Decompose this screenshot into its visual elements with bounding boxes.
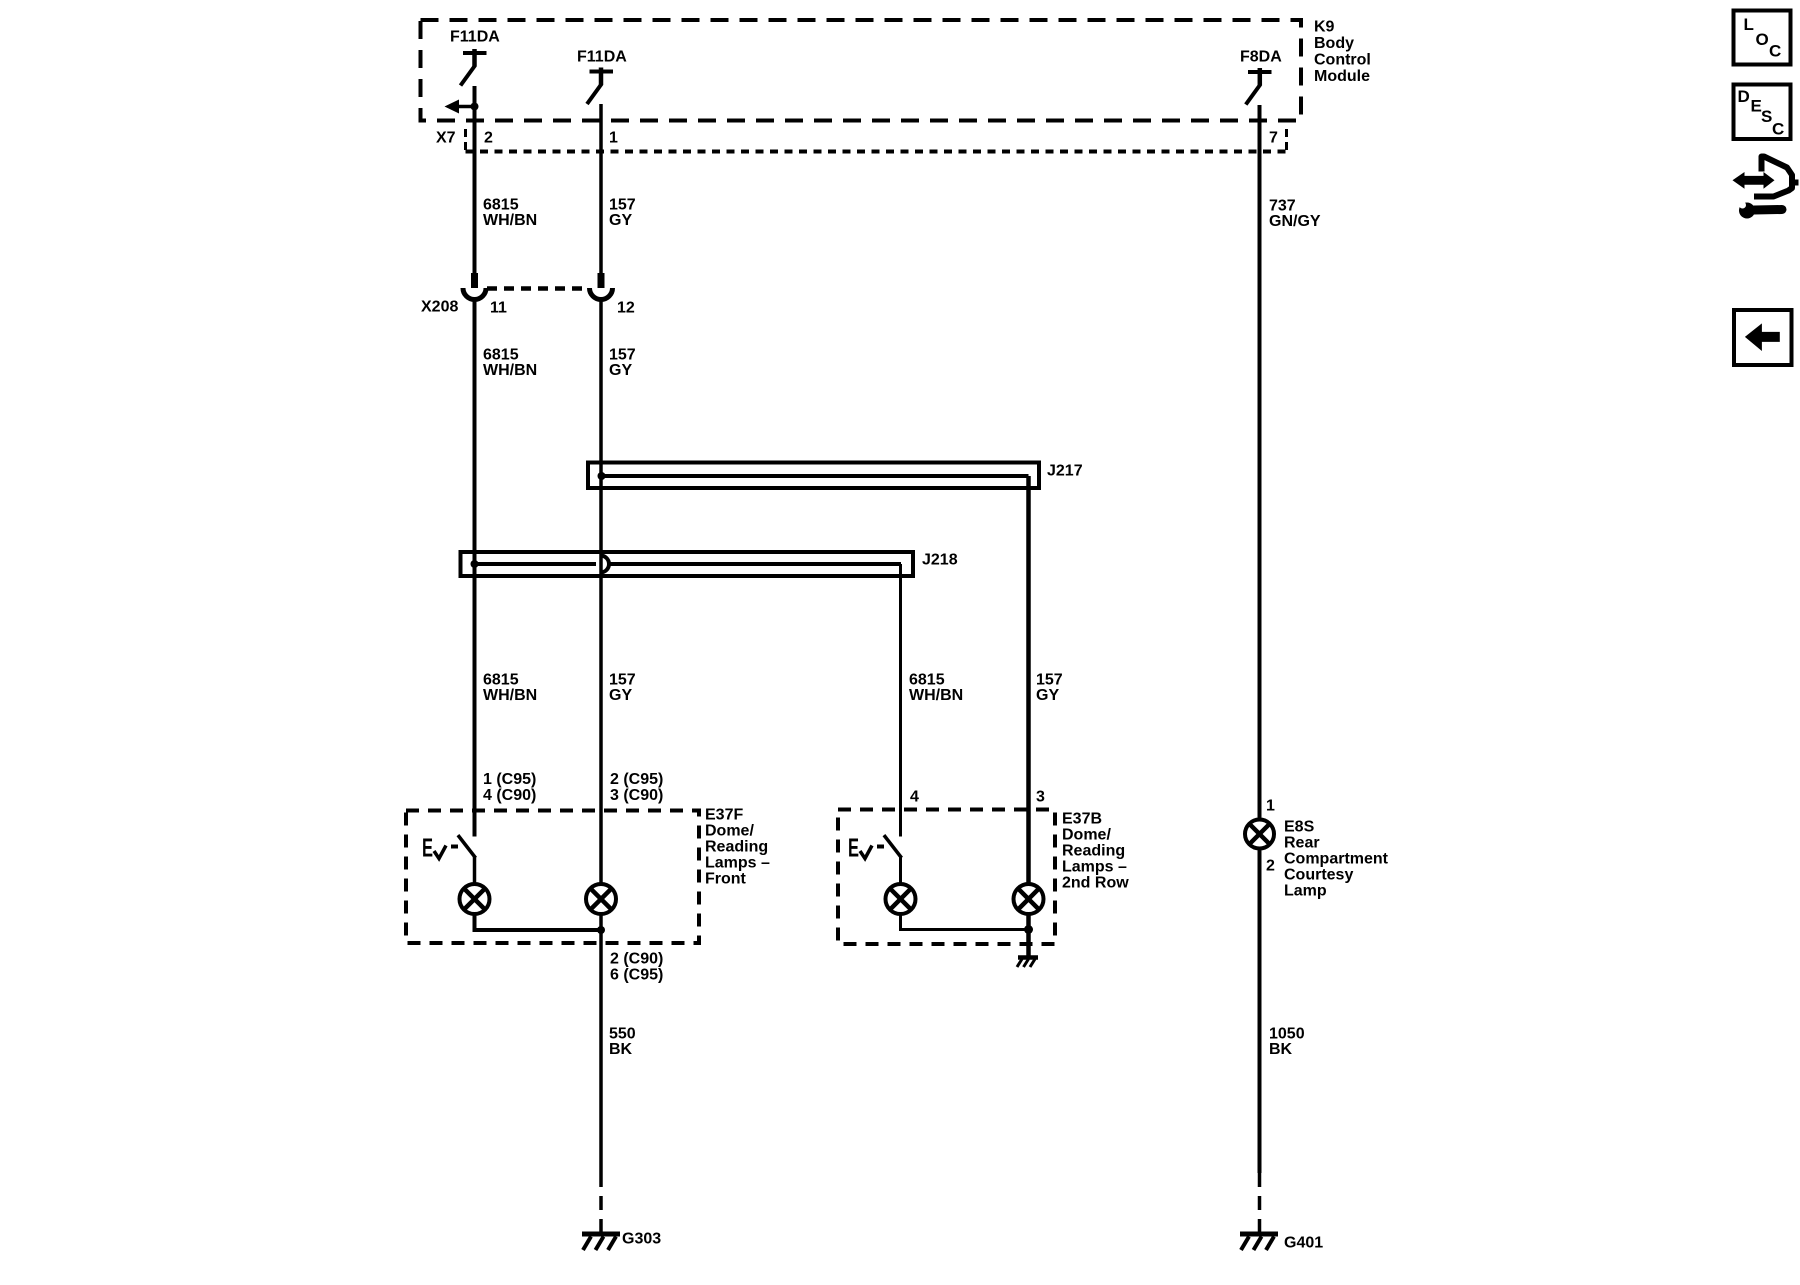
svg-text:GY: GY [609, 362, 632, 379]
svg-text:C: C [1772, 120, 1784, 139]
icon LOC button [1734, 11, 1791, 65]
ground G303 [582, 1234, 620, 1250]
E37F switch actuator label Ev [422, 833, 458, 863]
svg-text:6815: 6815 [483, 197, 519, 214]
icon back button (left arrow) [1734, 310, 1792, 365]
label E37B Dome/Reading Lamps - 2nd Row [1062, 811, 1129, 892]
wire lamp to ground (E37B) [1026, 914, 1031, 956]
svg-text:4: 4 [910, 789, 919, 806]
connector X7 dotted line [466, 129, 1287, 152]
icon DESC button [1734, 85, 1791, 140]
svg-text:2: 2 [1266, 858, 1275, 875]
wire 550 BK upper (lamp to below box) [599, 914, 603, 1173]
wire from J218 to E37B switch pin 4 [899, 564, 902, 837]
E37B lamp 1 [886, 884, 916, 914]
label E37F Dome/Reading Lamps - Front [705, 807, 770, 888]
svg-text:Module: Module [1314, 68, 1370, 85]
svg-text:F8DA: F8DA [1240, 49, 1282, 66]
svg-text:6815: 6815 [483, 347, 519, 364]
svg-text:Front: Front [705, 871, 747, 888]
svg-text:3: 3 [1036, 789, 1045, 806]
svg-text:Lamps –: Lamps – [705, 855, 770, 872]
splice pack J218 [461, 552, 914, 576]
wire 157 GY upper segment (fuse to X208) [599, 104, 603, 288]
fuse F11DA (second, circuit 157) [577, 49, 627, 105]
svg-text:157: 157 [609, 672, 636, 689]
svg-text:E8S: E8S [1284, 819, 1315, 836]
wire 1050 BK dashed lead to ground [1258, 1173, 1262, 1232]
svg-text:GY: GY [609, 687, 632, 704]
label K9 Body Control Module [1314, 19, 1371, 86]
connector X208 dashed link [487, 286, 589, 291]
E37F bottom link wire [475, 914, 602, 930]
svg-text:D: D [1738, 87, 1750, 106]
E37B switch actuator label Ev [848, 833, 884, 863]
svg-text:157: 157 [609, 197, 636, 214]
svg-text:GN/GY: GN/GY [1269, 213, 1321, 230]
svg-text:157: 157 [1036, 672, 1063, 689]
svg-text:Rear: Rear [1284, 835, 1320, 852]
svg-text:550: 550 [609, 1026, 636, 1043]
svg-text:F11DA: F11DA [450, 29, 500, 46]
svg-text:J217: J217 [1047, 463, 1083, 480]
svg-text:157: 157 [609, 347, 636, 364]
wire label 6815 WH/BN (above E37F) [483, 672, 537, 705]
pin label 1 (C95) / 4 (C90) [483, 771, 536, 804]
svg-text:J218: J218 [922, 552, 958, 569]
svg-text:737: 737 [1269, 198, 1296, 215]
ground G401 [1240, 1234, 1278, 1250]
wire switch to lamp (E37B) [899, 857, 902, 886]
svg-text:2nd Row: 2nd Row [1062, 875, 1129, 892]
icon related-diagram (double arrow with wrench) [1733, 157, 1799, 219]
E37F Dome/Reading Lamps - Front dashed box [406, 811, 699, 944]
svg-text:Body: Body [1314, 35, 1354, 52]
wire label 550 BK [609, 1026, 636, 1059]
splice pack J217 [588, 463, 1039, 489]
K9 Body Control Module dashed box [421, 20, 1302, 121]
svg-text:WH/BN: WH/BN [483, 362, 537, 379]
E37B switch blade [885, 837, 901, 857]
svg-text:Courtesy: Courtesy [1284, 867, 1353, 884]
wire label 1050 BK [1269, 1026, 1305, 1059]
svg-text:L: L [1744, 15, 1754, 34]
svg-text:1: 1 [609, 130, 618, 147]
wire label 6815 WH/BN (upper) [483, 197, 537, 230]
E37F lamp 1 [460, 884, 490, 914]
wire label 157 GY (above E37F) [609, 672, 636, 705]
svg-text:4 (C90): 4 (C90) [483, 787, 536, 804]
svg-text:2 (C90): 2 (C90) [610, 951, 663, 968]
svg-text:GY: GY [609, 212, 632, 229]
pin label 2 (C90) / 6 (C95) [610, 951, 663, 984]
svg-text:6815: 6815 [483, 672, 519, 689]
svg-text:O: O [1756, 30, 1769, 49]
E8S Rear Compartment Courtesy Lamp [1245, 820, 1274, 849]
svg-text:7: 7 [1269, 130, 1278, 147]
svg-text:1050: 1050 [1269, 1026, 1305, 1043]
wire from J217 to E37B lamp pin 3 [1026, 476, 1031, 885]
wire 550 BK dashed lead to ground [599, 1173, 603, 1232]
svg-text:BK: BK [609, 1041, 633, 1058]
E37B lamp 2 [1014, 884, 1044, 914]
wire label 157 GY (below X208) [609, 347, 636, 380]
svg-text:Reading: Reading [705, 839, 768, 856]
svg-text:Reading: Reading [1062, 843, 1125, 860]
svg-text:X208: X208 [421, 299, 458, 316]
arrow to other circuit (off-page, on wire 6815) [445, 100, 479, 114]
wire 1050 BK (lamp to ground) [1258, 848, 1262, 1173]
svg-text:WH/BN: WH/BN [483, 212, 537, 229]
svg-text:Dome/: Dome/ [1062, 827, 1111, 844]
svg-text:GY: GY [1036, 687, 1059, 704]
junction dot (E37B) [1024, 925, 1033, 934]
E37B bottom link wire [901, 914, 1029, 930]
wire label 157 GY (above E37B) [1036, 672, 1063, 705]
svg-text:G303: G303 [622, 1231, 661, 1248]
svg-text:12: 12 [617, 300, 635, 317]
wire label 737 GN/GY [1269, 198, 1321, 231]
wire label 6815 WH/BN (above E37B) [909, 672, 963, 705]
wire 6815 WH/BN upper segment (fuse to X208) [473, 86, 477, 288]
E37F lamp 2 [586, 884, 616, 914]
svg-text:F11DA: F11DA [577, 49, 627, 66]
wire 737 GN/GY (fuse F8DA to E8S lamp) [1258, 105, 1262, 820]
connector X208 terminal on wire 157 [590, 273, 613, 300]
svg-text:E37F: E37F [705, 807, 743, 824]
svg-text:Compartment: Compartment [1284, 851, 1389, 868]
svg-text:E: E [422, 833, 433, 863]
junction dot (E37F) [597, 926, 605, 934]
svg-text:2: 2 [484, 130, 493, 147]
svg-text:11: 11 [490, 300, 507, 317]
wire label 157 GY (upper) [609, 197, 636, 230]
svg-text:E: E [848, 833, 859, 863]
label E8S Rear Compartment Courtesy Lamp [1284, 819, 1389, 900]
wire 157 GY (X208 through J217/J218 to E37F lamp) [599, 299, 603, 886]
connector X208 terminal on wire 6815 [463, 273, 486, 300]
wire 6815 WH/BN segment (X208 to E37F switch) [473, 299, 477, 837]
svg-text:Lamps –: Lamps – [1062, 859, 1127, 876]
svg-text:WH/BN: WH/BN [909, 687, 963, 704]
E37B Dome/Reading Lamps - 2nd Row dashed box [838, 810, 1055, 945]
svg-text:1: 1 [1266, 798, 1275, 815]
svg-text:C: C [1769, 42, 1781, 61]
svg-text:X7: X7 [436, 130, 456, 147]
E37F switch blade [459, 837, 475, 857]
wire switch to lamp (E37F) [473, 857, 477, 886]
pin label 2 (C95) / 3 (C90) [610, 771, 663, 804]
fuse F11DA (left, circuit 6815) [450, 29, 500, 86]
svg-text:3 (C90): 3 (C90) [610, 787, 663, 804]
svg-text:K9: K9 [1314, 19, 1335, 36]
fuse F8DA [1240, 49, 1282, 105]
wire label 6815 WH/BN (below X208) [483, 347, 537, 380]
svg-text:E37B: E37B [1062, 811, 1102, 828]
svg-text:Dome/: Dome/ [705, 823, 754, 840]
svg-text:BK: BK [1269, 1041, 1293, 1058]
svg-text:Control: Control [1314, 52, 1371, 69]
svg-text:2 (C95): 2 (C95) [610, 771, 663, 788]
svg-text:6 (C95): 6 (C95) [610, 967, 663, 984]
svg-text:G401: G401 [1284, 1235, 1323, 1252]
ground (E37B internal) [1017, 958, 1038, 968]
svg-text:S: S [1761, 107, 1772, 126]
svg-text:Lamp: Lamp [1284, 883, 1327, 900]
svg-text:1 (C95): 1 (C95) [483, 771, 536, 788]
svg-text:WH/BN: WH/BN [483, 687, 537, 704]
svg-text:6815: 6815 [909, 672, 945, 689]
